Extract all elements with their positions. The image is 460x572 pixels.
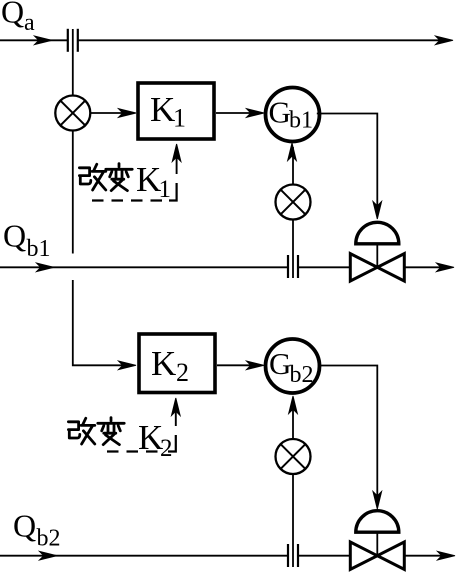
arrow into Gb2	[247, 361, 265, 370]
arrow up into K2 bottom	[172, 398, 181, 416]
label gai-bian K2	[68, 418, 94, 444]
wire sensor FE1 down to multiplier	[72, 29, 74, 96]
multiplier X2	[276, 185, 311, 220]
wire K2 to Gb2	[217, 364, 261, 366]
arrow on Qb1 pipe	[37, 263, 55, 272]
wire top pipe Qa right segment	[78, 39, 448, 41]
arrow up into Gb2 bottom	[289, 396, 298, 414]
flow sensor tap FE3 on Qb2 pipe	[288, 544, 298, 567]
svg-text:K: K	[150, 90, 175, 129]
control valve V2 with actuator dome	[350, 511, 404, 570]
wire Qb2 pipe mid segment to valve	[298, 555, 351, 557]
arrow down into actuator 1	[373, 202, 382, 220]
svg-text:1: 1	[173, 104, 186, 133]
svg-text:G: G	[269, 346, 291, 381]
arrow up into Gb1 bottom	[288, 143, 297, 161]
svg-text:K: K	[136, 160, 161, 199]
arrow down into actuator 2	[373, 492, 382, 510]
arrow into K1	[119, 109, 137, 118]
dashed adjust line to K1	[92, 199, 162, 201]
wire Qb2 pipe left segment	[0, 555, 288, 557]
arrow up into K1 bottom	[172, 144, 181, 162]
svg-text:b2: b2	[37, 526, 61, 552]
svg-text:K: K	[151, 344, 176, 383]
wire sensor FE3 up to multiplier X3	[292, 474, 294, 567]
arrow at right end of Qa pipe	[436, 36, 454, 45]
block K2	[139, 334, 215, 393]
wire Qb1 pipe left segment	[0, 266, 288, 268]
arrow on Qa pipe	[35, 36, 53, 45]
ratio station Gb2 (circle)	[266, 339, 320, 393]
svg-text:b1: b1	[289, 108, 313, 134]
multiplier X3	[276, 439, 311, 474]
arrow at right end of Qb1 pipe	[437, 263, 455, 272]
dashed adjust line to K2	[107, 450, 161, 452]
wire trunk from X1 down (gap at Qb1 crossing)	[72, 131, 74, 254]
arrow into K2	[119, 361, 137, 370]
wire Gb1 right then down to valve actuator	[317, 114, 378, 216]
svg-text:G: G	[269, 95, 291, 130]
ratio station Gb1 (circle)	[266, 88, 320, 142]
wire trunk resumes below Qb1	[73, 280, 133, 365]
wire multiplier X3 up to Gb2	[292, 400, 294, 439]
svg-text:Q: Q	[3, 218, 26, 254]
svg-text:1: 1	[159, 176, 172, 203]
wire top pipe Qa left segment	[0, 39, 68, 41]
block K1	[138, 83, 214, 139]
dashed corner at K1 adjust line	[169, 183, 177, 201]
wire sensor FE2 up to multiplier X2	[292, 220, 294, 278]
multiplier X1 (circle-cross)	[55, 96, 90, 131]
svg-text:a: a	[24, 10, 35, 36]
label gai-bian K1	[79, 164, 105, 190]
wire Qb2 pipe after valve	[404, 555, 450, 557]
wire Gb2 right then down to valve actuator 2	[318, 366, 378, 506]
arrow on Qb2 pipe	[40, 551, 58, 560]
wire multiplier X2 up to Gb1	[292, 147, 294, 184]
svg-text:2: 2	[160, 435, 173, 462]
wire Qb1 pipe after valve	[404, 266, 449, 268]
wire multiplier X1 to K1	[90, 112, 133, 114]
svg-text:b2: b2	[290, 362, 314, 388]
flow sensor tap FE2 on Qb1 pipe	[288, 255, 298, 278]
svg-text:2: 2	[176, 358, 189, 387]
control valve V1 with actuator dome	[350, 222, 404, 281]
arrow into Gb1	[247, 109, 265, 118]
svg-text:b1: b1	[27, 236, 51, 262]
flow sensor tap FE1 on Qa pipe	[68, 29, 78, 52]
wire Qb1 pipe mid segment to valve	[298, 266, 351, 268]
dashed corner at K2 adjust line	[168, 435, 176, 452]
svg-text:Q: Q	[1, 0, 24, 30]
wire solid arrow shaft into K1 bottom	[176, 149, 178, 174]
wire K1 to Gb1	[216, 112, 261, 114]
svg-text:Q: Q	[13, 508, 36, 544]
wire solid arrow shaft into K2 bottom	[175, 402, 177, 426]
arrow at right end of Qb2 pipe	[438, 551, 456, 560]
